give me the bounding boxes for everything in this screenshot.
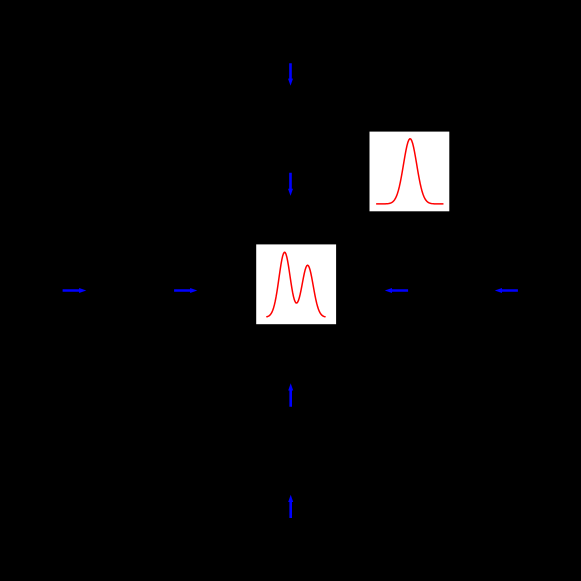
panel P1 (center white box) xyxy=(256,244,336,324)
arrow A6 (right outer, pointing left) xyxy=(495,288,518,293)
arrow A7 (bottom inner, pointing up) xyxy=(288,383,293,407)
arrow A2 (top inner, pointing down) xyxy=(288,173,293,196)
panel P2 (upper-right white box) xyxy=(370,132,450,212)
curve D1 (bimodal distribution in panel P1) xyxy=(267,252,325,317)
arrow A8 (bottom outer, pointing up) xyxy=(288,495,293,518)
arrow A3 (left outer, pointing right) xyxy=(63,288,87,293)
arrow A1 (top outer, pointing down) xyxy=(288,63,293,86)
arrow A5 (right inner, pointing left) xyxy=(385,288,408,293)
arrow A4 (left inner, pointing right) xyxy=(174,288,197,293)
curve D2 (Gaussian distribution in panel P2) xyxy=(377,139,443,204)
